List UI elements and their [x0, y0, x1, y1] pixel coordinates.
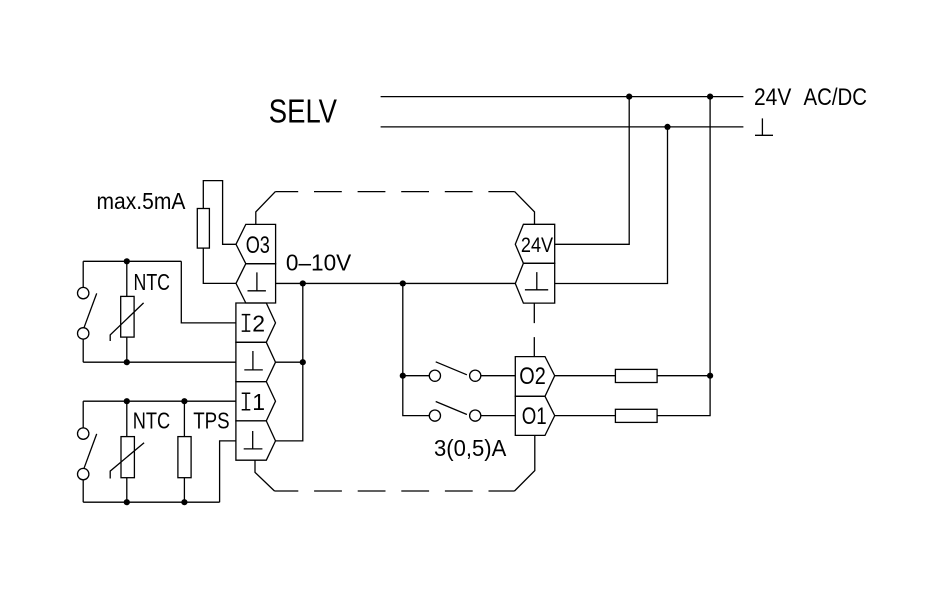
terminal O1: [515, 396, 554, 435]
terminal O3: [236, 224, 276, 263]
wire sensor2 top: [83, 400, 236, 402]
resistor TPS: [178, 401, 191, 502]
wire switch feed vertical: [403, 283, 430, 415]
wire 24V supply rail: [381, 96, 744, 98]
wire 0V rail to ground terminal: [555, 127, 668, 284]
ground symbol supply: [755, 118, 773, 135]
wire ground B tip: [276, 361, 303, 363]
wire sensor1 top: [83, 260, 181, 262]
terminal I2: [236, 303, 276, 342]
wire to O2 switch: [403, 375, 430, 377]
svg-text:24V: 24V: [521, 234, 553, 257]
junction dot load bus: [707, 373, 713, 379]
svg-text:AC/DC: AC/DC: [804, 84, 868, 111]
junction dot switch feed: [400, 373, 406, 379]
svg-text:TPS: TPS: [193, 408, 229, 434]
junction dot sensor2 top b: [181, 398, 187, 404]
junction dot sensor1 top: [124, 258, 130, 264]
junction dot rail C: [664, 124, 670, 130]
junction dot rail A: [626, 94, 632, 100]
switch sensor2: [78, 401, 97, 502]
thermistor NTC2: [110, 401, 144, 502]
load resistor O1: [615, 409, 657, 422]
controller outline dashed bottom: [255, 436, 535, 492]
wire sensor1 to I2: [181, 261, 236, 323]
svg-text:1: 1: [252, 389, 265, 415]
wire 0V supply rail: [381, 126, 744, 128]
resistor max.5mA: [197, 209, 209, 249]
controller outline dashed top: [256, 192, 535, 225]
junction dot ground bus: [300, 359, 306, 365]
junction dot sensor2 top a: [124, 398, 130, 404]
controller outline dashed middle vertical: [533, 303, 535, 357]
wire resistor to ground A: [203, 248, 236, 283]
terminal I1: [236, 382, 276, 421]
junction dot sensor2 bottom a: [124, 499, 130, 505]
svg-text:NTC: NTC: [133, 408, 170, 434]
wire load O2 to bus: [657, 375, 710, 377]
wire O1 to load: [555, 415, 616, 417]
junction dot 0-10V b: [400, 280, 406, 286]
terminal ground B: [236, 342, 276, 381]
switch sensor1: [78, 261, 97, 362]
wire ground bus vertical: [276, 283, 303, 440]
junction dot sensor2 bottom b: [181, 499, 187, 505]
svg-text:max.5mA: max.5mA: [97, 188, 186, 214]
wire O3 loop upper: [203, 181, 236, 245]
wire sensor2 bottom: [83, 501, 219, 503]
switch contact O2: [429, 362, 515, 382]
wire 24V rail to 24V terminal: [555, 97, 630, 245]
svg-text:O2: O2: [519, 363, 546, 390]
svg-text:0–10V: 0–10V: [286, 250, 352, 276]
terminal ground A: [236, 264, 276, 303]
junction dot 0-10V a: [300, 280, 306, 286]
wire O2 to load: [555, 375, 616, 377]
junction dot sensor1 bottom: [124, 359, 130, 365]
terminal 24V: [515, 224, 554, 263]
wire 0-10V bus: [276, 282, 516, 284]
terminal ground C: [236, 421, 276, 460]
svg-text:3(0,5)A: 3(0,5)A: [434, 435, 507, 461]
wire sensor2 return to ground C: [220, 441, 236, 502]
switch contact O1: [429, 402, 515, 422]
terminal ground D: [515, 263, 554, 303]
junction dot rail B: [707, 94, 713, 100]
wire 24V rail to output loads: [657, 97, 710, 416]
svg-text:NTC: NTC: [134, 269, 171, 295]
svg-text:O3: O3: [246, 232, 270, 259]
load resistor O2: [615, 369, 657, 382]
terminal O2: [515, 357, 554, 397]
svg-text:O1: O1: [522, 403, 547, 430]
svg-text:24V: 24V: [754, 84, 792, 111]
thermistor NTC1: [110, 261, 143, 362]
wire sensor1 bottom: [83, 361, 236, 363]
svg-text:2: 2: [252, 310, 265, 336]
svg-text:SELV: SELV: [269, 93, 337, 130]
